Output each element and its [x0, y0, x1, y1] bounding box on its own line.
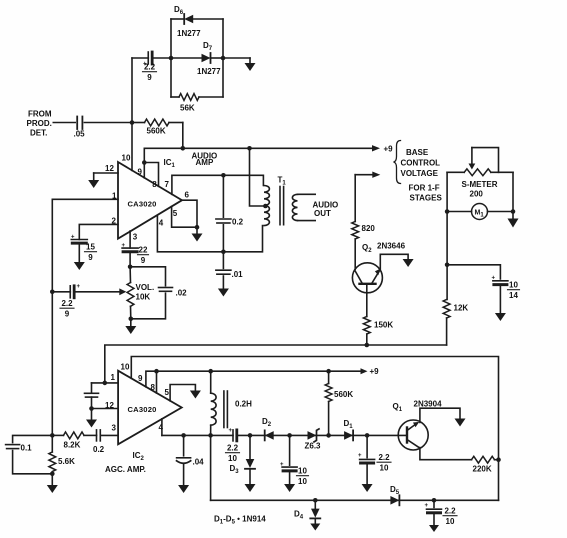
- svg-text:.04: .04: [193, 458, 205, 467]
- wire pin 7 to T1 primary top: [172, 175, 264, 194]
- transistor Q1 2N3904 circle: [398, 420, 428, 450]
- wire D7 to box right: [211, 57, 224, 59]
- wire +9 rail AGC: [157, 370, 363, 372]
- svg-text:10: 10: [298, 467, 307, 476]
- junction S-meter rail / 10-14 cap: [445, 263, 450, 268]
- resistor 560K bias (horizontal): [145, 119, 170, 126]
- wire AGC feedback rail (pin 10 IC2): [131, 357, 498, 501]
- wire input node vertical to pin 10: [131, 58, 133, 170]
- wire 0.2H to bottom rail: [210, 435, 212, 500]
- junction rail / IC2 pin 1: [103, 381, 108, 386]
- svg-text:.02: .02: [176, 289, 188, 298]
- wire 22/9 to volume pot: [129, 252, 131, 267]
- svg-text:0.2: 0.2: [93, 445, 105, 454]
- svg-text:FROM: FROM: [28, 110, 52, 119]
- ground 15/9 cap: [74, 262, 85, 270]
- diode D3 (points down): [249, 435, 251, 459]
- wire 5.6K to ground: [51, 474, 53, 485]
- svg-text:2N3904: 2N3904: [414, 400, 443, 409]
- svg-text:10: 10: [509, 281, 518, 290]
- wire 0.2 to pin 3: [100, 434, 118, 436]
- diode D6 1N277 (points left): [184, 15, 193, 24]
- pin 5 wire IC2 to ground: [170, 385, 195, 401]
- junction AGC input node: [50, 433, 55, 438]
- svg-text:10: 10: [298, 477, 307, 486]
- resistor 12K: [443, 300, 450, 319]
- arrow base control voltage: [372, 172, 380, 178]
- capacitor pin1-pin12 IC2: [91, 383, 93, 393]
- wiper arrow S-meter: [469, 164, 476, 170]
- wire pin 9/8 bracket: [144, 163, 158, 187]
- junction volume pot top: [128, 265, 133, 270]
- svg-text:0.2H: 0.2H: [235, 400, 252, 409]
- svg-text:10: 10: [122, 154, 131, 163]
- resistor 220K: [472, 456, 495, 463]
- svg-text:+: +: [280, 462, 284, 468]
- svg-text:5: 5: [165, 388, 170, 397]
- svg-text:3: 3: [112, 424, 117, 433]
- svg-text:+9: +9: [370, 367, 380, 376]
- junction Q1 base node: [365, 433, 370, 438]
- wiper arrow volume: [119, 288, 126, 295]
- diode D4 (points down): [314, 500, 316, 508]
- svg-text:12K: 12K: [454, 304, 469, 313]
- capacitor 2.2/10 at Q1 base: [366, 435, 368, 457]
- wire clamp box right vertical: [222, 19, 224, 97]
- transformer T1 secondary coil: [292, 194, 297, 220]
- ground volume pot: [125, 326, 136, 334]
- svg-text:0.2: 0.2: [232, 218, 244, 227]
- capacitor 22/9 pin3: [122, 247, 138, 249]
- wire base control voltage arrow: [355, 174, 373, 176]
- brace base control voltage: [394, 141, 401, 184]
- wire Q1 collector to 220K: [420, 448, 472, 460]
- svg-text:OUT: OUT: [314, 209, 331, 218]
- wire pot bottom to ground: [130, 319, 132, 326]
- potentiometer VOL 10K: [127, 283, 134, 307]
- op-amp IC2 CA3020 triangle: [118, 371, 182, 445]
- svg-text:+: +: [358, 453, 362, 459]
- ground Q2 emitter: [403, 259, 414, 267]
- ground 2.2/10 Q1: [362, 484, 373, 492]
- capacitor .04: [183, 435, 185, 455]
- potentiometer S-METER 200: [464, 169, 491, 176]
- svg-text:2.2: 2.2: [144, 63, 156, 72]
- svg-text:4: 4: [159, 423, 164, 432]
- svg-text:0.1: 0.1: [21, 444, 33, 453]
- junction T1 center tap drop: [247, 146, 252, 151]
- svg-text:+: +: [425, 503, 429, 509]
- svg-text:14: 14: [509, 291, 518, 300]
- wire pin 4 rail to T1 primary bottom: [157, 215, 262, 252]
- diode D2 (points left): [265, 431, 274, 440]
- svg-text:560K: 560K: [334, 390, 353, 399]
- svg-text:220K: 220K: [473, 465, 492, 474]
- svg-text:S-METER: S-METER: [462, 180, 498, 189]
- svg-text:.05: .05: [74, 130, 86, 139]
- resistor 820: [352, 222, 359, 240]
- junction 0.2H top: [208, 369, 213, 374]
- ground 2.2/10 bottom: [429, 525, 439, 532]
- junction pin 12 cap: [89, 406, 94, 411]
- capacitor 2.2/9 AGC tap: [69, 286, 71, 298]
- svg-text:6: 6: [185, 191, 190, 200]
- wire clamp box top-left segment: [171, 18, 184, 20]
- wire AGC line left: [162, 434, 233, 436]
- wire pin 9/8 drop from +9 rail: [143, 148, 145, 162]
- diode D7 1N277 (points right): [202, 54, 211, 63]
- diode D1 (points right): [344, 431, 353, 440]
- capacitor 2.2/10 bottom: [433, 500, 435, 507]
- svg-text:CA3020: CA3020: [128, 200, 157, 209]
- junction pins 9/8 IC2: [154, 369, 159, 374]
- wire pins 9/8 bracket IC2: [146, 371, 157, 393]
- svg-text:2N3646: 2N3646: [377, 242, 406, 251]
- wire Q2 base to 150K: [366, 284, 368, 317]
- svg-text:9: 9: [88, 253, 93, 262]
- wire rail pin1-IC2 / 150K / 12K: [105, 345, 447, 383]
- wire 560K to +9 rail: [182, 123, 184, 149]
- wire pin 12 to ground: [94, 172, 118, 174]
- zener Z6.3 (points right): [308, 431, 317, 440]
- junction 150K / rail: [365, 343, 370, 348]
- junction clamp box left: [169, 56, 174, 61]
- svg-text:9: 9: [138, 168, 143, 177]
- svg-text:AGC. AMP.: AGC. AMP.: [105, 465, 146, 474]
- junction pin1 line / volume tap: [50, 290, 55, 295]
- ground pin 12 IC2: [86, 420, 97, 428]
- ground pin 5 IC2: [190, 391, 201, 399]
- wire to 10/14 cap: [447, 265, 500, 279]
- junction 0.2 cap top: [221, 173, 226, 178]
- svg-text:9: 9: [141, 256, 146, 265]
- svg-text:8: 8: [152, 180, 157, 189]
- ground pins 5/6 IC1: [192, 234, 203, 242]
- svg-text:10: 10: [228, 454, 237, 463]
- junction pin9 bracket: [142, 160, 147, 165]
- svg-text:150K: 150K: [374, 321, 393, 330]
- junction 560K top: [326, 369, 331, 374]
- svg-text:1N277: 1N277: [177, 29, 201, 38]
- transistor Q2 collector lead: [355, 270, 362, 283]
- svg-text:BASE: BASE: [406, 148, 429, 157]
- svg-text:VOL.: VOL.: [136, 283, 155, 292]
- svg-text:8.2K: 8.2K: [64, 441, 81, 450]
- capacitor 0.2 pin3 coupling: [96, 430, 98, 441]
- wire 12K to rail: [446, 318, 448, 345]
- capacitor .01 to ground: [222, 252, 224, 269]
- wire to ground (top right): [223, 57, 250, 59]
- junction D3: [248, 433, 253, 438]
- wire pin 12 IC2: [92, 408, 119, 410]
- ground 10/10 cap: [284, 484, 295, 492]
- junction D4: [313, 498, 318, 503]
- wire AGC line mid: [237, 434, 407, 436]
- wire pins 5/6 to ground: [196, 227, 198, 233]
- wire 15/9 cap to ground: [78, 243, 80, 262]
- svg-text:5.6K: 5.6K: [58, 457, 75, 466]
- wire S-meter wiper loop: [472, 148, 499, 173]
- wire cap to input node junction: [84, 122, 132, 124]
- svg-text:+: +: [229, 428, 233, 434]
- wire M1 right lead to ground: [488, 212, 514, 219]
- svg-text:2.2: 2.2: [227, 444, 239, 453]
- wire 10/14 cap to ground: [499, 285, 501, 313]
- wire bottom AGC rail: [211, 499, 499, 501]
- resistor 560K AGC: [325, 384, 332, 402]
- svg-text:12: 12: [105, 164, 114, 173]
- wire clamp box left vertical: [170, 19, 172, 97]
- svg-text:560K: 560K: [147, 127, 166, 136]
- transistor Q1 collector lead: [407, 440, 419, 448]
- wire clamp box top-right segment: [193, 18, 223, 20]
- svg-text:+: +: [71, 235, 75, 241]
- transistor Q1 base bar: [406, 428, 408, 443]
- meter M1 circle: [472, 204, 488, 220]
- junction 0.2 cap bottom: [221, 250, 226, 255]
- svg-text:1: 1: [112, 192, 117, 201]
- svg-text:2.2: 2.2: [444, 507, 456, 516]
- ground .04 cap: [178, 485, 189, 493]
- transformer T1 primary coil: [264, 186, 269, 226]
- capacitor 0.2 across primary: [222, 177, 224, 217]
- wire pin 6: [182, 200, 197, 227]
- resistor 5.6K: [49, 452, 56, 472]
- svg-text:200: 200: [470, 190, 484, 199]
- ground .01 cap: [218, 289, 229, 297]
- diode D5 (points right): [390, 496, 399, 505]
- node junction input/pin10: [130, 120, 135, 125]
- ground M1: [508, 219, 519, 228]
- svg-text:9: 9: [138, 374, 143, 383]
- resistor 150K: [363, 317, 370, 335]
- svg-text:10: 10: [446, 517, 455, 526]
- wire pin 4 drop: [161, 419, 163, 436]
- ground Q1 emitter: [455, 419, 466, 427]
- svg-text:CA3020: CA3020: [128, 405, 157, 414]
- junction clamp box right: [221, 56, 226, 61]
- svg-text:10: 10: [380, 464, 389, 473]
- capacitor 0.1: [13, 435, 53, 442]
- capacitor 2.2/9 AGC clamp coupling: [147, 52, 149, 64]
- capacitor .05 input coupling: [76, 117, 78, 130]
- svg-text:1N277: 1N277: [197, 67, 221, 76]
- junction 2.2/10 bottom cap: [432, 498, 437, 503]
- svg-text:56K: 56K: [180, 104, 195, 113]
- inductor 0.2H: [211, 393, 216, 425]
- transistor Q2 base bar: [360, 283, 376, 285]
- junction 0.2H bottom: [208, 433, 213, 438]
- svg-text:8: 8: [151, 383, 156, 392]
- svg-text:10K: 10K: [136, 293, 151, 302]
- svg-text:15: 15: [86, 243, 95, 252]
- junction 220K / feedback line: [496, 457, 501, 462]
- svg-text:12: 12: [105, 401, 114, 410]
- wire input to coupling cap: [53, 122, 75, 124]
- junction pins 5/6: [195, 225, 200, 230]
- svg-text:1: 1: [111, 373, 116, 382]
- wire S-meter left rail: [446, 172, 448, 299]
- wire Q1 emitter to ground: [420, 408, 460, 422]
- svg-text:10: 10: [121, 363, 130, 372]
- junction 560K bottom: [326, 433, 331, 438]
- wire T1 secondary top lead: [298, 193, 316, 195]
- resistor 56K clamp bottom: [179, 94, 199, 101]
- wire S-meter right lead down: [512, 172, 514, 211]
- op-amp IC1 CA3020 triangle: [118, 162, 182, 239]
- svg-text:PROD.: PROD.: [27, 119, 52, 128]
- resistor 8.2K: [64, 432, 85, 439]
- arrow +9 AGC: [361, 368, 368, 374]
- wire cap to clamp box left: [152, 57, 171, 59]
- wire T1 center tap from +9: [250, 148, 266, 206]
- capacitor 15/9 pin2 bypass: [71, 239, 87, 241]
- svg-text:2: 2: [112, 217, 117, 226]
- wire 150K to bottom rail: [366, 334, 368, 345]
- wire node to D7: [171, 57, 202, 59]
- transistor Q1 emitter lead with arrow: [407, 424, 416, 431]
- ground 10/14 cap: [495, 313, 506, 321]
- wire pin 1 IC2: [92, 382, 119, 384]
- ground D3: [245, 484, 256, 492]
- wire M1 left lead: [447, 211, 471, 213]
- wire 820 to Q2 collector: [354, 239, 356, 269]
- wire pin 3 to 22/9 cap: [129, 231, 131, 248]
- inductor 0.2H core: [223, 391, 225, 428]
- svg-text:VOLTAGE: VOLTAGE: [401, 169, 439, 178]
- arrow +9 rail: [372, 145, 380, 151]
- svg-text:.01: .01: [232, 270, 244, 279]
- svg-text:+: +: [122, 243, 126, 249]
- junction T1 center tap: [263, 204, 268, 209]
- svg-text:22: 22: [139, 246, 148, 255]
- svg-text:3: 3: [133, 233, 138, 242]
- wire pin 5: [172, 207, 197, 228]
- wire T1 secondary bottom lead: [298, 220, 316, 222]
- junction .04 cap: [181, 433, 186, 438]
- wire pin 2 to bypass cap: [79, 224, 118, 239]
- junction M1 right: [511, 209, 516, 214]
- transformer T1 core: [279, 187, 281, 225]
- svg-text:+9: +9: [384, 145, 394, 154]
- junction 10/10 cap: [287, 433, 292, 438]
- capacitor 10/10: [289, 435, 291, 465]
- junction pot bottom: [129, 317, 134, 322]
- wire Q2 collector to 820: [354, 175, 356, 222]
- svg-text:820: 820: [362, 224, 376, 233]
- wire node to 2.2uF cap: [132, 57, 148, 59]
- wire pin12 to ground: [91, 409, 93, 420]
- svg-text:2.2: 2.2: [378, 453, 390, 462]
- svg-text:9: 9: [65, 310, 70, 319]
- capacitor 2.2/10 series: [232, 430, 234, 441]
- svg-text:4: 4: [159, 219, 164, 228]
- svg-text:+: +: [77, 284, 81, 290]
- svg-text:2.2: 2.2: [61, 299, 73, 308]
- svg-text:AMP: AMP: [196, 158, 214, 167]
- svg-text:DET.: DET.: [30, 129, 47, 138]
- ground pin 12 IC1: [88, 180, 99, 188]
- svg-text:5: 5: [173, 209, 178, 218]
- ground top clamp: [245, 63, 256, 71]
- svg-text:+: +: [492, 276, 496, 282]
- junction 560K / +9 rail: [181, 146, 186, 151]
- svg-text:STAGES: STAGES: [410, 194, 443, 203]
- transistor Q2 emitter lead with arrow: [372, 272, 379, 284]
- wire Q2 emitter to ground: [380, 254, 408, 270]
- svg-text:FOR 1-F: FOR 1-F: [409, 184, 440, 193]
- wire +9 rail: [144, 147, 373, 149]
- ground D4: [310, 524, 320, 531]
- wire pin 1 long feedback to AGC node: [52, 199, 118, 435]
- svg-text:Z6.3: Z6.3: [305, 442, 322, 451]
- svg-text:7: 7: [165, 180, 170, 189]
- ground AGC input: [47, 485, 58, 493]
- transistor Q2 2N3646 circle: [352, 263, 382, 293]
- svg-text:9: 9: [147, 73, 152, 82]
- svg-text:CONTROL: CONTROL: [401, 159, 441, 168]
- junction M1 left: [445, 209, 450, 214]
- junction 5.6K bottom: [50, 472, 55, 477]
- capacitor 10/14: [493, 280, 508, 282]
- capacitor .02 across pot: [130, 267, 165, 286]
